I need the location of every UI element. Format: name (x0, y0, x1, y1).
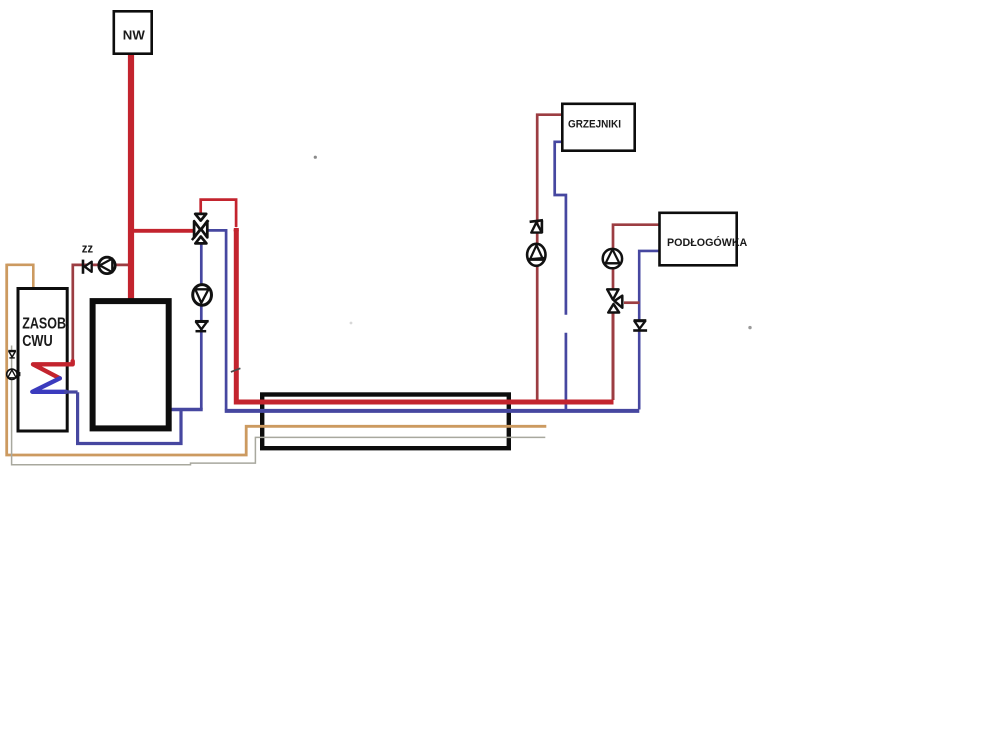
svg-text:ZASOB.: ZASOB. (22, 316, 69, 333)
svg-text:PODŁOGÓWKA: PODŁOGÓWKA (667, 236, 747, 249)
svg-text:zz: zz (82, 240, 94, 255)
svg-text:CWU: CWU (22, 333, 53, 350)
svg-text:GRZEJNIKI: GRZEJNIKI (568, 119, 621, 131)
svg-text:NW: NW (123, 28, 146, 43)
